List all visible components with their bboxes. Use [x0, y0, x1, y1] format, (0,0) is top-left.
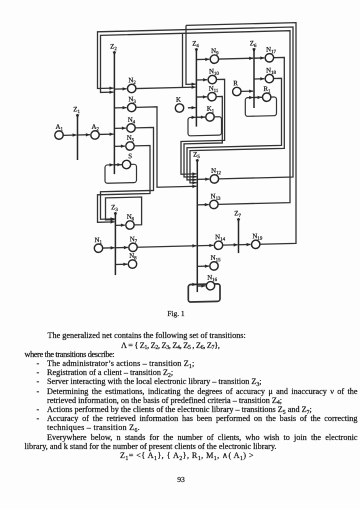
wire N10 to Z5 — [181, 79, 225, 176]
wire N12 feedback loop top — [98, 27, 294, 182]
place N2 — [128, 77, 137, 93]
transition Z3 — [111, 204, 118, 275]
transition Z2 — [110, 43, 117, 174]
place N16 — [206, 274, 217, 290]
place N4 — [127, 117, 136, 133]
wire N6 loop back to Z3 — [106, 197, 142, 226]
place S — [122, 153, 132, 169]
place N7 — [129, 236, 138, 252]
wire A2 to Z2 — [99, 132, 113, 136]
wire Z2 to N4 — [114, 126, 126, 130]
place N13 — [210, 193, 221, 209]
place N1 — [94, 237, 102, 253]
wire Z3 to N7 — [115, 246, 128, 250]
wire N14 to Z7 — [223, 243, 238, 247]
wire A1 to Z1 — [63, 133, 76, 137]
place N19 — [252, 233, 263, 249]
place K1 — [206, 106, 215, 122]
place K — [175, 97, 183, 113]
svg-text:Z4: Z4 — [192, 40, 199, 49]
wire Z4 to N9 — [196, 58, 209, 62]
wire Z5 to N16 — [197, 284, 205, 288]
svg-text:Z3: Z3 — [111, 204, 118, 213]
wire N17 to Z5 — [190, 57, 284, 184]
wire N9 to Z6 — [219, 56, 254, 60]
generalized net diagram (Fig. 1) — [0, 0, 360, 310]
wire Z6 to N17 — [254, 56, 264, 60]
place R — [233, 80, 241, 96]
wire K to Z4 — [188, 106, 196, 110]
wire S feedback box to Z2 — [105, 163, 137, 184]
wire Z3 to N6 — [115, 223, 125, 227]
wire N18 to Z5 — [187, 78, 282, 181]
wire Z4 to K1 — [196, 115, 205, 119]
figure caption — [0, 309, 356, 318]
wire N3 to Z5 — [136, 106, 197, 190]
wire K1 feedback box to Z4 — [188, 115, 222, 136]
wire Z6 to R1 — [254, 96, 262, 100]
place A2 — [91, 124, 100, 140]
wire N19 feedback loop top — [186, 23, 296, 246]
svg-text:Z5: Z5 — [193, 151, 200, 160]
wire Z7 to N19 — [239, 243, 251, 247]
wire Z2 to N3 — [114, 106, 126, 110]
wire Z4 to N10 — [196, 78, 207, 82]
wire Z2 to N5 — [114, 144, 125, 148]
wire Z5 to N14 — [197, 244, 213, 248]
wire Z2 to N2 — [114, 87, 126, 91]
wire N7 to Z5 — [137, 244, 196, 249]
place N6 — [126, 214, 135, 230]
wire R to Z6 — [241, 89, 253, 93]
wire top loop drop to Z4 b — [186, 25, 196, 86]
wire N4 to Z3 — [101, 127, 154, 220]
transition Z1 — [73, 106, 80, 160]
wire top loop drop to Z4 a — [182, 33, 184, 87]
wire N13 feedback loop top — [101, 31, 291, 208]
transition Z4 — [192, 40, 199, 126]
wire Z4 to N11 — [196, 95, 207, 99]
wire N11 to Z5 — [184, 96, 222, 178]
place A1 — [55, 124, 64, 140]
svg-text:Z1: Z1 — [73, 106, 80, 115]
transition Z5 — [193, 151, 200, 292]
place N3 — [128, 96, 137, 112]
svg-text:Z7: Z7 — [234, 210, 241, 219]
wire Z6 to N18 — [254, 77, 264, 81]
place N9 — [210, 48, 219, 64]
page number — [0, 475, 360, 484]
wire N2 to Z4 — [136, 85, 196, 90]
wire N5 to Z3 — [98, 146, 151, 224]
place N15 — [210, 255, 221, 271]
body text — [25, 331, 358, 460]
place N11 — [208, 85, 219, 101]
place N18 — [265, 67, 276, 83]
place N17 — [265, 46, 276, 62]
wire Z5 to N13 — [197, 203, 209, 207]
place N8 — [128, 253, 137, 269]
wire N16 feedback box — [188, 282, 220, 302]
transition Z7 — [234, 210, 241, 253]
place N5 — [126, 135, 135, 151]
wire Z1 to A2 — [78, 133, 90, 137]
wire Z2 to S — [114, 163, 121, 167]
place R1 — [263, 86, 272, 102]
wire N1 to Z3 — [103, 246, 115, 250]
wire Z3 to N8 — [115, 262, 127, 266]
transition Z6 — [250, 40, 257, 108]
svg-text:S: S — [128, 153, 132, 160]
wire R1 feedback box to Z6 — [245, 95, 276, 116]
place N14 — [214, 234, 225, 250]
svg-text:Z6: Z6 — [250, 40, 257, 49]
svg-text:Z2: Z2 — [110, 43, 117, 52]
wire Z5 to N15 — [197, 264, 209, 268]
wire Z5 to N12 — [197, 177, 209, 181]
place N12 — [210, 168, 221, 184]
svg-text:R: R — [233, 80, 238, 87]
place N10 — [208, 68, 219, 84]
svg-text:K: K — [176, 97, 181, 104]
